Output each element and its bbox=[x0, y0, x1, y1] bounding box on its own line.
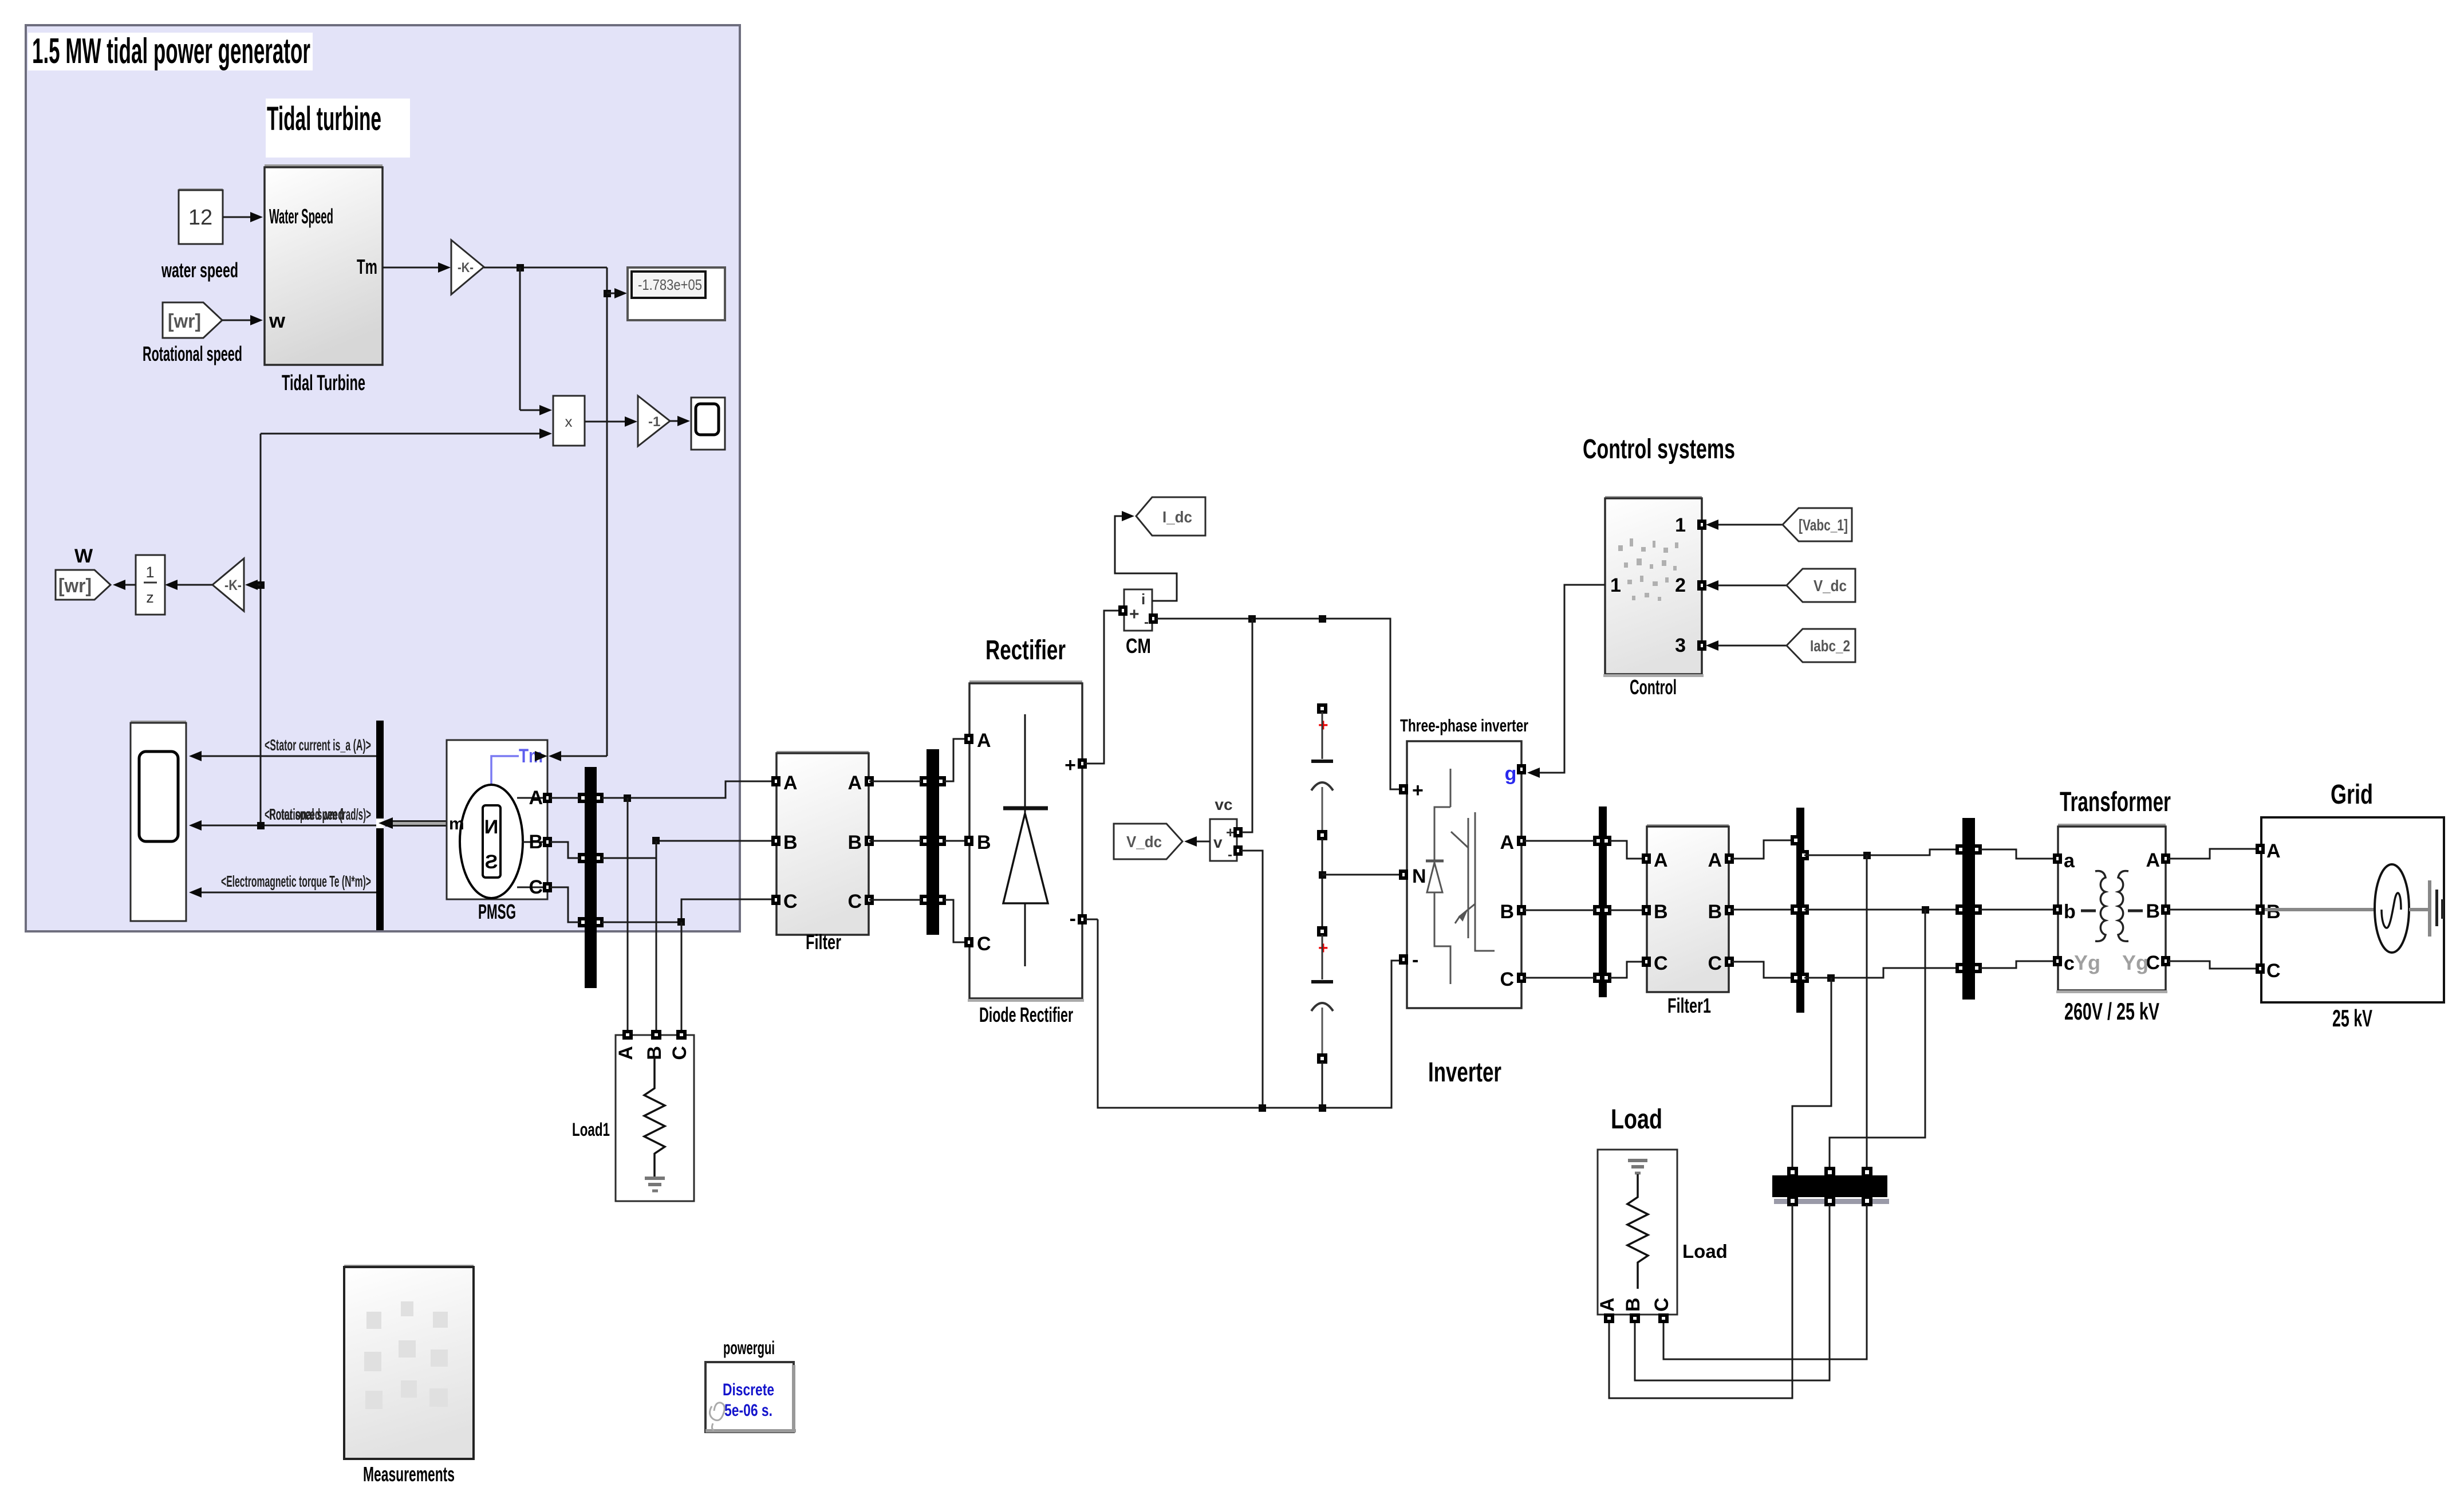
transformer winding icon bbox=[2081, 871, 2143, 941]
resistor R1 (Load1) bbox=[644, 1057, 665, 1177]
svg-text:i: i bbox=[1141, 591, 1145, 608]
wire: busbar phase C to Filter C with tap to Load1 C bbox=[602, 899, 774, 1032]
wire: rectifier + to CM + bbox=[1085, 611, 1121, 764]
svg-text:Three-phase inverter: Three-phase inverter bbox=[1400, 715, 1528, 735]
svg-text:v: v bbox=[1213, 833, 1223, 851]
subsystem area: 1.5 MW tidal power generator bbox=[26, 25, 741, 933]
svg-text:x: x bbox=[565, 413, 573, 430]
svg-text:A: A bbox=[977, 730, 991, 752]
svg-text:C: C bbox=[847, 891, 862, 912]
voltage measurement block vc bbox=[1210, 796, 1241, 863]
svg-text:[wr]: [wr] bbox=[168, 310, 201, 332]
svg-text:-1: -1 bbox=[648, 414, 660, 430]
svg-text:vc: vc bbox=[1215, 796, 1232, 813]
wire: stator current to scope bbox=[189, 736, 376, 761]
svg-text:[Vabc_1]: [Vabc_1] bbox=[1799, 516, 1848, 534]
svg-text:1.5 MW tidal power generator: 1.5 MW tidal power generator bbox=[32, 32, 310, 71]
svg-text:A: A bbox=[1596, 1297, 1618, 1312]
feedback: junction to gain K2 bbox=[245, 580, 265, 590]
wire: transformer B to Grid B bbox=[2169, 909, 2258, 911]
svg-text:-K-: -K- bbox=[224, 577, 242, 593]
scope block (torque scope) bbox=[691, 398, 725, 450]
svg-text:N: N bbox=[1412, 865, 1426, 887]
svg-text:powergui: powergui bbox=[723, 1337, 775, 1358]
wire: busbar phase B to Filter B with tap to Load1 B bbox=[602, 837, 774, 1032]
wire: busbar to transformer c bbox=[1980, 961, 2056, 968]
svg-text:B: B bbox=[2266, 901, 2281, 923]
svg-text:Measurements: Measurements bbox=[363, 1462, 455, 1486]
three-phase filter block: Filter1 bbox=[1643, 824, 1732, 1017]
busbar before transformer bbox=[1957, 818, 1980, 1000]
svg-text:Load: Load bbox=[1682, 1241, 1728, 1262]
wire: product input 2 from feedback line bbox=[261, 428, 552, 825]
shaft: PMSG m output to measurement bus bbox=[376, 817, 447, 829]
svg-text:260V / 25 kV: 260V / 25 kV bbox=[2064, 998, 2159, 1025]
svg-text:B: B bbox=[1654, 901, 1668, 923]
wire: busbar to rectifier A bbox=[944, 739, 967, 781]
diode D1 icon bbox=[1024, 714, 1026, 966]
wire: PMSG B to generator busbar bbox=[550, 842, 579, 858]
wire: Control output to inverter g bbox=[1527, 585, 1605, 778]
svg-text:I_dc: I_dc bbox=[1162, 508, 1192, 526]
inverter output busbar bbox=[1595, 806, 1610, 997]
svg-text:C: C bbox=[669, 1046, 691, 1060]
svg-text:a: a bbox=[2064, 850, 2075, 872]
svg-text:z: z bbox=[146, 589, 154, 606]
svg-text:c: c bbox=[2064, 953, 2075, 974]
wire: vc output to V_dc tag bbox=[1184, 836, 1210, 847]
wire: PMSG C to generator busbar bbox=[550, 887, 579, 922]
resistor R2 (Load) bbox=[1627, 1174, 1648, 1289]
svg-text:Tidal turbine: Tidal turbine bbox=[267, 100, 381, 137]
wire: DC midpoint to inverter N bbox=[1319, 839, 1402, 928]
svg-text:C: C bbox=[1500, 969, 1514, 990]
svg-text:C: C bbox=[2266, 960, 2281, 982]
wire: Filter B out to busbar bbox=[869, 840, 921, 842]
subsystem block: Measurements bbox=[344, 1265, 474, 1486]
gain -1 bbox=[638, 396, 670, 446]
wire: phase A to transformer busbar with tap to load bus bbox=[1804, 849, 1959, 1168]
wire: inverter A to busbar bbox=[1524, 840, 1595, 842]
Goto tag V_dc bbox=[1114, 824, 1182, 859]
svg-text:C: C bbox=[1654, 953, 1668, 974]
svg-text:C: C bbox=[783, 891, 798, 912]
grid block: Grid 25 kV bbox=[2257, 780, 2444, 1032]
svg-text:Diode Rectifier: Diode Rectifier bbox=[979, 1003, 1073, 1026]
constant block: water speed = 12 bbox=[161, 188, 238, 282]
svg-text:+: + bbox=[1226, 824, 1235, 841]
svg-text:Load1: Load1 bbox=[572, 1119, 610, 1140]
svg-text:-: - bbox=[1228, 847, 1232, 863]
svg-text:25 kV: 25 kV bbox=[2332, 1005, 2372, 1032]
wire: Tm output to gain K1 bbox=[383, 262, 451, 273]
svg-text:Discrete: Discrete bbox=[723, 1380, 774, 1399]
ground (Load1 internal) bbox=[645, 1177, 665, 1180]
svg-text:A: A bbox=[847, 772, 862, 794]
svg-text:<Stator current is_a (A)>: <Stator current is_a (A)> bbox=[265, 736, 371, 754]
unit delay block 1/z bbox=[136, 555, 165, 615]
wire: busbar to rectifier B bbox=[944, 840, 967, 842]
wire: gain K1 output to display and product bbox=[484, 264, 627, 761]
three-phase filter block: Filter bbox=[773, 751, 872, 954]
wire: vc - input from DC- rail bbox=[1241, 851, 1263, 1108]
wire: electromagnetic torque to scope bbox=[189, 872, 376, 898]
From tag [wr] (input to turbine) bbox=[143, 302, 242, 365]
transformer block: 260V / 25 kV bbox=[2055, 787, 2171, 1025]
display block: -1.783e+05 bbox=[628, 267, 725, 320]
svg-text:A: A bbox=[783, 772, 798, 794]
svg-text:C: C bbox=[1651, 1297, 1673, 1312]
svg-text:-: - bbox=[1144, 615, 1149, 630]
svg-text:B: B bbox=[847, 832, 862, 853]
svg-text:CM: CM bbox=[1126, 634, 1151, 658]
svg-text:A: A bbox=[1654, 849, 1668, 871]
Goto tag [wr] with label W bbox=[56, 545, 111, 600]
svg-text:B: B bbox=[1708, 901, 1722, 923]
wire: DC- bottom rail bbox=[1085, 919, 1402, 1112]
svg-text:[wr]: [wr] bbox=[58, 575, 92, 597]
wire: busbar to transformer a bbox=[1980, 849, 2056, 859]
svg-text:C: C bbox=[529, 876, 543, 898]
Goto tag I_dc bbox=[1136, 497, 1205, 536]
IGBT/diode icon inside inverter bbox=[1426, 769, 1495, 984]
svg-text:Rotational speed: Rotational speed bbox=[143, 342, 242, 365]
svg-text:+: + bbox=[1412, 780, 1424, 801]
gain K1 (-K-) bbox=[451, 240, 484, 294]
svg-text:1: 1 bbox=[1610, 575, 1621, 596]
svg-text:+: + bbox=[1065, 754, 1076, 776]
svg-text:1: 1 bbox=[145, 564, 154, 581]
control subsystem title: Control systems bbox=[1583, 434, 1735, 465]
current measurement block CM bbox=[1120, 589, 1156, 658]
AC voltage source symbol inside grid bbox=[2265, 908, 2375, 911]
wire: busbar to rectifier C bbox=[944, 900, 967, 942]
svg-text:Filter: Filter bbox=[806, 930, 841, 954]
svg-text:Iabc_2: Iabc_2 bbox=[1810, 637, 1850, 655]
svg-text:Tm: Tm bbox=[357, 255, 377, 278]
subsystem block: Tidal Turbine bbox=[265, 164, 383, 395]
wire: transformer C to Grid C bbox=[2169, 961, 2258, 969]
svg-text:Yg: Yg bbox=[2074, 951, 2100, 974]
wire: PMSG A to generator busbar bbox=[550, 797, 579, 799]
svg-text:V_dc: V_dc bbox=[1813, 577, 1847, 595]
wire: busbar phase A to Filter A with tap to Load1 A bbox=[602, 781, 774, 1032]
wire: busbar to Filter1 C bbox=[1610, 962, 1645, 978]
svg-text:Tidal Turbine: Tidal Turbine bbox=[282, 371, 365, 395]
svg-text:+: + bbox=[1318, 939, 1328, 958]
svg-text:+: + bbox=[1129, 605, 1140, 624]
inverter block: Three-phase inverter bbox=[1400, 715, 1528, 1088]
load busbar (horizontal) bbox=[1772, 1168, 1889, 1205]
svg-text:PMSG: PMSG bbox=[478, 900, 516, 923]
wire: load bus to Load block A bbox=[1609, 1205, 1792, 1398]
svg-text:+: + bbox=[1318, 716, 1328, 735]
wire: DC+ rail from CM to inverter + bbox=[1156, 615, 1402, 789]
wire: CM i output to I_dc tag bbox=[1115, 511, 1177, 601]
wire: inverter B to busbar bbox=[1524, 910, 1595, 911]
load block: Load1 bbox=[572, 1032, 694, 1201]
svg-text:A: A bbox=[615, 1046, 637, 1060]
wire: water speed to Water Speed input bbox=[223, 212, 263, 222]
wire: gain K2 to unit delay bbox=[165, 580, 212, 590]
load block: Load bbox=[1596, 1104, 1728, 1321]
product block x bbox=[553, 396, 585, 446]
wire: load bus to Load block B bbox=[1635, 1205, 1830, 1380]
wire: Filter1 B out to busbar bbox=[1732, 909, 1792, 911]
svg-text:water speed: water speed bbox=[161, 258, 238, 282]
svg-text:Transformer: Transformer bbox=[2060, 787, 2171, 817]
busbar after Filter1 bbox=[1792, 808, 1807, 1013]
wire: load bus to Load block C bbox=[1663, 1205, 1867, 1359]
ground (Load internal) bbox=[1628, 1159, 1647, 1162]
wire: unit delay to Goto [wr] bbox=[113, 580, 136, 590]
svg-text:-: - bbox=[1412, 949, 1418, 971]
svg-text:B: B bbox=[1500, 901, 1514, 923]
wire: busbar to Filter1 B bbox=[1610, 910, 1645, 911]
wire: gain -1 to scope bbox=[670, 416, 690, 426]
svg-text:A: A bbox=[1500, 832, 1514, 853]
svg-text:Rectifier: Rectifier bbox=[985, 635, 1066, 666]
wire: phase B to transformer busbar with tap to load bus bbox=[1804, 906, 1959, 1168]
scope block (machine measurements scope) bbox=[131, 721, 186, 921]
wire: inverter C to busbar bbox=[1524, 977, 1595, 979]
svg-text:V_dc: V_dc bbox=[1126, 833, 1162, 851]
svg-text:2: 2 bbox=[1675, 575, 1686, 596]
svg-text:B: B bbox=[2146, 900, 2160, 922]
wire: product output to gain -1 bbox=[585, 416, 637, 427]
wire: transformer A to Grid A bbox=[2169, 849, 2258, 859]
svg-text:Load: Load bbox=[1611, 1104, 1662, 1135]
machine block: PMSG bbox=[447, 740, 550, 923]
From tag [Vabc_1] to Control 1 bbox=[1706, 508, 1852, 541]
wire: vc + input from DC+ rail bbox=[1242, 619, 1252, 832]
svg-text:A: A bbox=[2146, 849, 2160, 871]
svg-text:C: C bbox=[1708, 953, 1722, 974]
svg-text:-: - bbox=[1070, 908, 1076, 930]
svg-text:B: B bbox=[783, 832, 798, 853]
From tag V_dc to Control 2 bbox=[1706, 569, 1855, 602]
title label: 1.5 MW tidal power generator bbox=[28, 32, 313, 71]
svg-text:Control systems: Control systems bbox=[1583, 434, 1735, 465]
svg-text:-1.783e+05: -1.783e+05 bbox=[638, 276, 702, 293]
wire: [wr] to w input bbox=[222, 315, 263, 325]
capacitor C1 (DC link upper) bbox=[1311, 705, 1333, 839]
svg-text:W: W bbox=[74, 545, 93, 567]
svg-text:<Electromagnetic torque Te (N*: <Electromagnetic torque Te (N*m)> bbox=[221, 872, 371, 890]
svg-text:Inverter: Inverter bbox=[1428, 1057, 1501, 1088]
powergui block bbox=[705, 1337, 796, 1433]
svg-text:N: N bbox=[484, 816, 499, 838]
svg-text:S: S bbox=[485, 851, 498, 873]
svg-text:12: 12 bbox=[188, 206, 212, 230]
wire: Filter C out to busbar bbox=[869, 899, 921, 901]
From tag Iabc_2 to Control 3 bbox=[1706, 629, 1855, 662]
svg-text:B: B bbox=[977, 832, 991, 853]
wire: Filter A out to busbar bbox=[869, 781, 921, 782]
svg-text:-K-: -K- bbox=[458, 260, 474, 276]
rectifier block: Diode Rectifier bbox=[966, 635, 1085, 1026]
svg-text:Water Speed: Water Speed bbox=[269, 204, 333, 228]
wire: phase C to transformer busbar with tap to load bus bbox=[1792, 968, 1959, 1168]
ground bars (grid reference) bbox=[2428, 880, 2431, 937]
svg-text:A: A bbox=[529, 787, 543, 809]
AC busbar after Filter bbox=[921, 749, 944, 935]
svg-text:C: C bbox=[977, 933, 991, 955]
svg-text:Yg: Yg bbox=[2122, 951, 2148, 974]
svg-text:1: 1 bbox=[1675, 514, 1686, 536]
svg-text:3: 3 bbox=[1675, 635, 1686, 656]
svg-text:5e-06 s.: 5e-06 s. bbox=[724, 1401, 772, 1420]
svg-text:g: g bbox=[1505, 763, 1517, 785]
svg-text:B: B bbox=[529, 831, 543, 853]
svg-text:w: w bbox=[269, 309, 286, 332]
svg-text:B: B bbox=[1622, 1297, 1644, 1312]
svg-text:Rotational speed: Rotational speed bbox=[269, 805, 344, 823]
label: Tidal turbine bbox=[266, 99, 410, 158]
svg-text:b: b bbox=[2064, 901, 2076, 923]
generator busbar bbox=[579, 767, 602, 988]
control block: Control bbox=[1603, 496, 1705, 699]
demux busbar (machine measurement bus) bbox=[376, 721, 384, 930]
wire: Filter1 A out to busbar bbox=[1732, 840, 1793, 859]
wire: rotor speed to scope (with branch to feedback) bbox=[189, 805, 376, 831]
capacitor C2 (DC link lower) bbox=[1311, 928, 1333, 1108]
svg-text:A: A bbox=[2266, 840, 2281, 862]
wire: Filter1 C out to busbar bbox=[1732, 962, 1792, 978]
gain K2 (-K-, left pointing) bbox=[212, 558, 244, 611]
wire: busbar to Filter1 A bbox=[1610, 841, 1645, 859]
svg-text:m: m bbox=[449, 815, 464, 833]
svg-text:A: A bbox=[1708, 849, 1722, 871]
svg-text:Grid: Grid bbox=[2331, 780, 2373, 810]
svg-text:Filter1: Filter1 bbox=[1667, 994, 1711, 1017]
svg-text:Control: Control bbox=[1630, 675, 1677, 699]
wire: busbar to transformer b bbox=[1980, 909, 2056, 911]
